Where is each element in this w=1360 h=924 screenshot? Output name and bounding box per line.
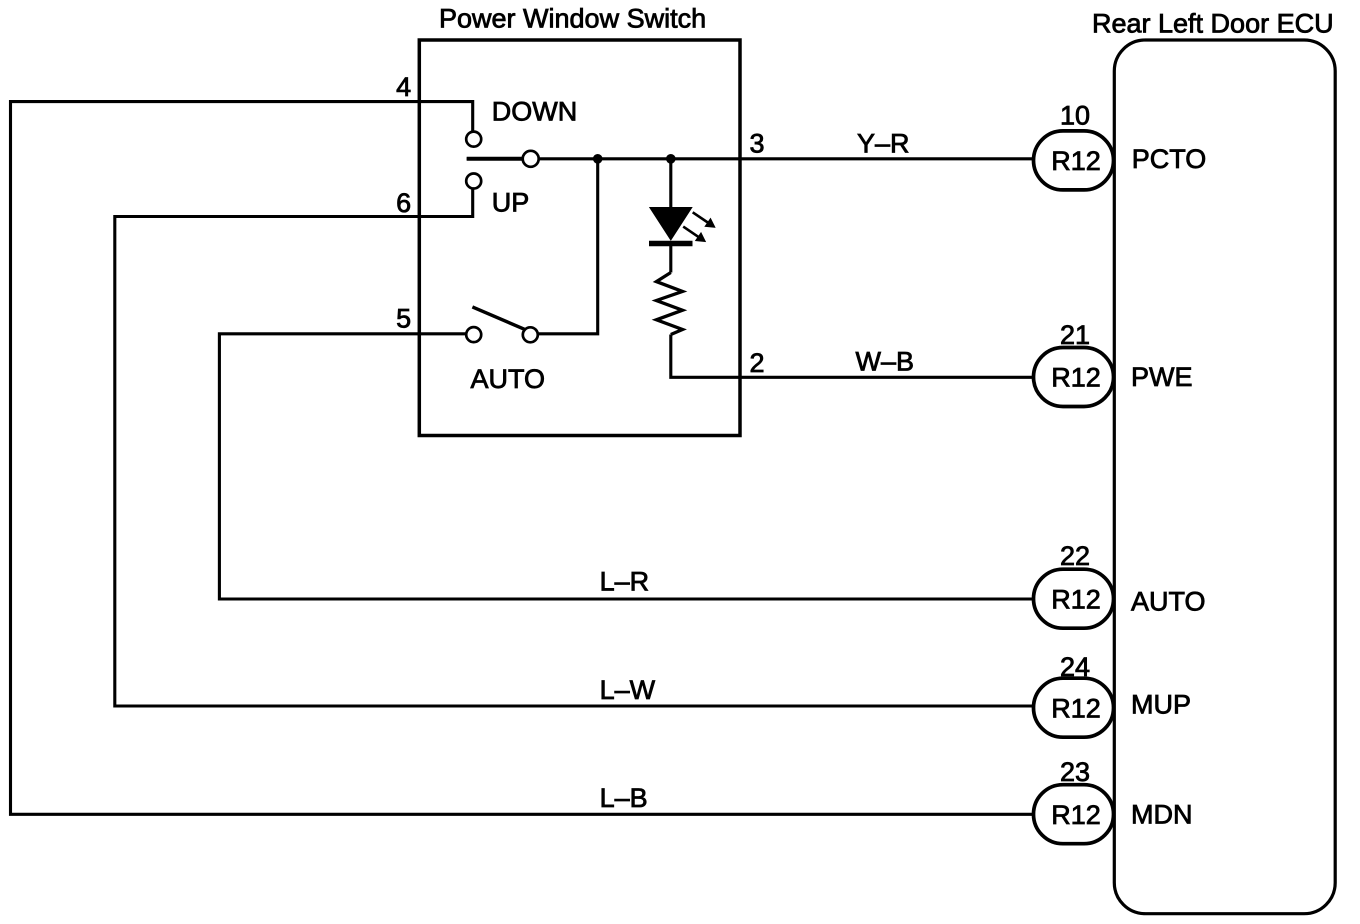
- svg-text:R12: R12: [1051, 363, 1101, 393]
- svg-text:PWE: PWE: [1131, 362, 1193, 392]
- svg-text:R12: R12: [1051, 800, 1101, 830]
- svg-text:4: 4: [396, 72, 411, 102]
- svg-text:Rear Left Door ECU: Rear Left Door ECU: [1092, 9, 1334, 39]
- svg-text:R12: R12: [1051, 584, 1101, 614]
- svg-text:6: 6: [396, 188, 411, 218]
- svg-text:Power Window Switch: Power Window Switch: [439, 4, 706, 34]
- svg-text:PCTO: PCTO: [1132, 144, 1207, 174]
- svg-text:L–R: L–R: [600, 567, 650, 597]
- svg-text:R12: R12: [1051, 146, 1101, 176]
- svg-text:Y–R: Y–R: [857, 129, 910, 159]
- svg-text:DOWN: DOWN: [492, 96, 577, 126]
- svg-text:22: 22: [1060, 541, 1090, 571]
- svg-text:21: 21: [1060, 320, 1090, 350]
- svg-text:23: 23: [1060, 757, 1090, 787]
- svg-text:AUTO: AUTO: [471, 364, 546, 394]
- svg-text:AUTO: AUTO: [1131, 587, 1206, 617]
- svg-text:R12: R12: [1051, 693, 1101, 723]
- svg-text:3: 3: [750, 129, 765, 159]
- svg-text:24: 24: [1060, 652, 1090, 682]
- svg-text:10: 10: [1060, 101, 1090, 131]
- svg-text:UP: UP: [492, 187, 530, 217]
- svg-text:L–W: L–W: [600, 675, 656, 705]
- svg-text:2: 2: [750, 348, 765, 378]
- svg-text:W–B: W–B: [856, 347, 915, 377]
- svg-text:L–B: L–B: [600, 783, 648, 813]
- svg-text:MUP: MUP: [1131, 690, 1191, 720]
- svg-text:5: 5: [396, 304, 411, 334]
- svg-text:MDN: MDN: [1131, 800, 1193, 830]
